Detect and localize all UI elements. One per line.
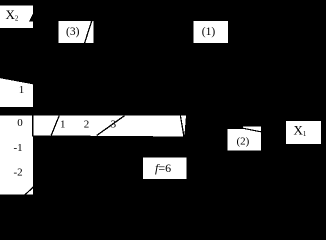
- line 1 segment at column bottom corner: [25, 187, 33, 195]
- objective function label f=6: [143, 158, 187, 180]
- line 2 segment near band right end: [180, 116, 184, 137]
- x1 axis band with tick numbers: [33, 116, 186, 137]
- label box (2): [228, 126, 261, 150]
- svg-text:-2: -2: [14, 166, 23, 178]
- svg-text:(1): (1): [202, 26, 216, 38]
- label box (3): [58, 21, 93, 43]
- line 2 segment crossing box (2): [243, 128, 261, 132]
- svg-text:f=6: f=6: [155, 161, 171, 175]
- X2 axis arrowhead: [29, 14, 33, 22]
- label box 1 on x2 axis, top edge cut by line 2: [0, 78, 33, 107]
- label box X1: [286, 121, 321, 144]
- svg-text:2: 2: [84, 119, 90, 131]
- svg-text:1: 1: [19, 84, 25, 96]
- x2 axis line crossing band: [32, 116, 34, 137]
- svg-text:(3): (3): [66, 26, 80, 38]
- svg-text:-1: -1: [14, 142, 23, 154]
- label box X2: [0, 6, 33, 28]
- svg-text:(2): (2): [237, 135, 250, 147]
- label box (1): [193, 21, 228, 43]
- line 3 segment crossing x1 axis: [51, 116, 59, 136]
- line 1 segment crossing x1 axis: [97, 116, 125, 136]
- svg-text:1: 1: [60, 119, 66, 131]
- black step over box (2) top-left: [228, 126, 244, 128]
- x2 axis numbers column: [0, 116, 33, 195]
- svg-text:0: 0: [17, 117, 23, 129]
- line 3 segment in label box: [85, 21, 92, 43]
